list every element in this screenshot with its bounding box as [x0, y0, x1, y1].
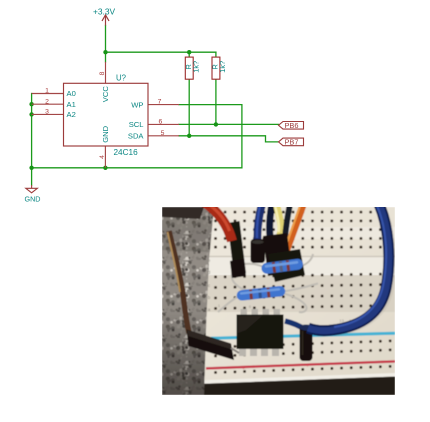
svg-text:A1: A1: [67, 100, 76, 109]
svg-text:5: 5: [161, 130, 165, 137]
svg-text:A0: A0: [67, 89, 76, 98]
svg-text:U?: U?: [116, 73, 127, 82]
svg-text:SDA: SDA: [128, 132, 145, 141]
svg-text:GND: GND: [101, 125, 110, 142]
svg-text:+3.3V: +3.3V: [93, 7, 116, 17]
svg-text:1: 1: [45, 88, 49, 95]
svg-text:PB6: PB6: [285, 121, 299, 130]
svg-text:7: 7: [158, 99, 162, 106]
svg-text:13: 13: [339, 318, 344, 323]
svg-text:4: 4: [99, 155, 106, 159]
svg-text:1k?: 1k?: [192, 61, 201, 73]
svg-text:6: 6: [159, 119, 163, 126]
svg-text:+: +: [242, 366, 245, 372]
svg-text:8: 8: [99, 71, 106, 75]
svg-text:SCL: SCL: [129, 120, 144, 129]
svg-text:b: b: [208, 295, 211, 300]
svg-text:PB7: PB7: [285, 138, 299, 147]
svg-text:A2: A2: [67, 110, 76, 119]
svg-text:1k?: 1k?: [218, 61, 227, 73]
svg-text:WP: WP: [131, 100, 143, 109]
svg-text:d: d: [208, 270, 211, 275]
svg-text:e: e: [208, 258, 211, 263]
svg-text:a: a: [208, 307, 211, 312]
svg-text:+: +: [306, 364, 309, 370]
svg-text:2: 2: [45, 98, 49, 105]
svg-text:GND: GND: [25, 195, 41, 204]
svg-text:24C16: 24C16: [114, 148, 139, 157]
svg-text:VCC: VCC: [101, 86, 110, 103]
svg-text:3: 3: [45, 109, 49, 116]
